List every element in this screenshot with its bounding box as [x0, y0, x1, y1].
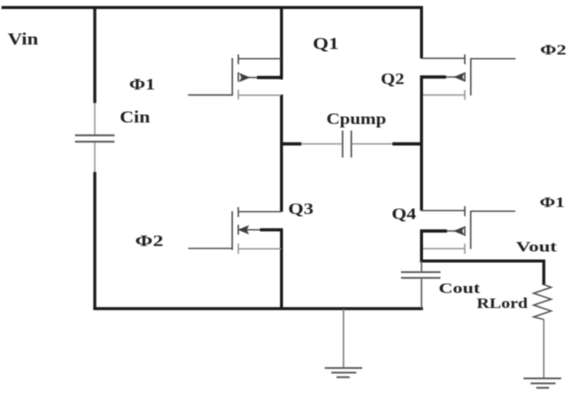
resistor RLord	[534, 285, 552, 320]
svg-text:Φ1: Φ1	[129, 77, 155, 94]
svg-text:Cpump: Cpump	[326, 111, 386, 128]
svg-text:Φ2: Φ2	[540, 42, 566, 58]
transistor Q1	[232, 54, 283, 99]
wire node A bus upper segment (from top rail to Q1 drain/body)	[280, 8, 283, 80]
wire top rail (Vin net)	[2, 6, 424, 9]
svg-text:Φ2: Φ2	[135, 233, 163, 250]
wire Cpump left lead thin	[301, 143, 342, 145]
svg-text:Q3: Q3	[288, 201, 314, 218]
wire Cpump right lead thin	[352, 143, 393, 145]
wire node A bus lower segment (Q3 body+source to ground rail)	[280, 230, 283, 311]
svg-text:Φ1: Φ1	[540, 195, 565, 211]
transistor Q4	[420, 206, 471, 254]
svg-text:Q1: Q1	[313, 34, 339, 53]
wire Q4 gate lead	[471, 210, 516, 212]
wire Cout bottom stub	[421, 279, 423, 309]
wire Cin top stub (thick)	[93, 8, 96, 104]
ground right	[524, 378, 562, 387]
transistor Q2	[420, 54, 471, 99]
wire node B bus upper segment (top rail to Q2 drain)	[420, 8, 423, 59]
wire RLord bottom lead	[543, 320, 545, 378]
wire Cpump right lead thick	[392, 142, 420, 145]
wire Cin bottom lead (thin)	[94, 143, 96, 172]
wire node A bus middle segment (Q1 source / Cpump left / Q3 drain)	[280, 95, 283, 212]
capacitor Cpump	[343, 131, 352, 158]
wire Cin top lead (thin)	[94, 103, 96, 134]
svg-text:Vin: Vin	[8, 29, 39, 48]
wire Vout rail	[420, 261, 544, 285]
wire Q1 gate lead	[188, 94, 232, 96]
svg-text:RLord: RLord	[477, 296, 529, 312]
svg-text:Cout: Cout	[439, 281, 481, 297]
ground left	[325, 368, 363, 377]
transistor Q3	[232, 207, 283, 254]
svg-text:Q2: Q2	[381, 71, 405, 88]
svg-text:Q4: Q4	[392, 206, 417, 223]
wire Cout top stub	[421, 261, 423, 271]
wire Q2 gate lead	[471, 58, 516, 60]
wire ground stub left	[343, 309, 345, 367]
svg-text:Cin: Cin	[120, 108, 151, 127]
wire ground rail (bottom)	[93, 307, 423, 310]
capacitor Cout	[401, 272, 441, 278]
wire node B bus middle segment (Q2 body+source / Cpump right / Q4 drain)	[420, 76, 423, 211]
svg-text:Vout: Vout	[516, 239, 557, 255]
wire Cpump left lead thick	[283, 142, 302, 145]
wire node B bus lower segment (Q4 body+source to Vout rail)	[420, 230, 423, 261]
wire Cin bottom stub (thick)	[93, 172, 96, 310]
wire Q3 gate lead	[188, 247, 232, 249]
capacitor Cin	[75, 135, 115, 141]
